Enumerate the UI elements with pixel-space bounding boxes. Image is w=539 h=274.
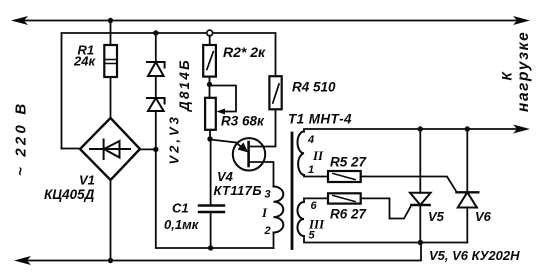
svg-text:3: 3 bbox=[265, 189, 271, 201]
svg-text:V6: V6 bbox=[475, 209, 492, 224]
R3 wiper arrow bbox=[217, 109, 226, 115]
wire zener branch upper bbox=[155, 33, 157, 62]
node V6 top junction bbox=[465, 126, 470, 131]
wire R1 top lead bbox=[110, 21, 112, 46]
wire V4 emitter lead bbox=[210, 140, 243, 149]
svg-text:Д814Б: Д814Б bbox=[177, 58, 192, 112]
svg-text:V2,V3: V2,V3 bbox=[167, 114, 182, 164]
wire R2 bottom lead bbox=[209, 77, 211, 98]
node zener top junction bbox=[153, 30, 158, 35]
node R2 top terminal bbox=[207, 30, 213, 36]
svg-text:КЦ405Д: КЦ405Д bbox=[44, 187, 95, 202]
wire winding II bottom lead bbox=[304, 175, 328, 177]
svg-text:R2* 2к: R2* 2к bbox=[223, 44, 266, 60]
svg-text:R4 510: R4 510 bbox=[292, 80, 336, 95]
zener diode V2 bbox=[147, 62, 165, 76]
wire C1 bottom lead bbox=[210, 212, 212, 248]
svg-text:R5 27: R5 27 bbox=[330, 155, 368, 170]
transformer T1 winding III bbox=[298, 202, 304, 236]
wire bridge bottom lead bbox=[110, 180, 112, 261]
wire top rail bbox=[24, 20, 517, 22]
svg-text:6: 6 bbox=[311, 200, 318, 212]
wire winding III bottom lead bbox=[304, 236, 467, 243]
node E emitter junction bbox=[207, 136, 212, 141]
svg-text:R6 27: R6 27 bbox=[330, 207, 368, 222]
arrow top-left to mains bbox=[11, 16, 28, 25]
svg-text:2: 2 bbox=[264, 225, 271, 237]
resistor R4 bbox=[269, 76, 281, 109]
resistor R2 bbox=[203, 45, 216, 77]
node bridge right / zener line junction bbox=[153, 147, 158, 152]
node bridge bottom rail junction bbox=[108, 258, 113, 263]
svg-text:Т1 МНТ-4: Т1 МНТ-4 bbox=[288, 112, 352, 127]
svg-text:нагрузке: нагрузке bbox=[515, 31, 532, 112]
svg-text:C1: C1 bbox=[172, 201, 189, 216]
arrow bottom-left to mains bbox=[14, 256, 31, 265]
svg-text:1: 1 bbox=[308, 164, 314, 176]
arrow top-right to load bbox=[513, 16, 530, 25]
svg-text:I: I bbox=[261, 205, 268, 220]
svg-text:V4: V4 bbox=[217, 169, 234, 184]
wire zener branch lower bbox=[155, 111, 157, 149]
svg-text:II: II bbox=[312, 148, 324, 163]
svg-text:24к: 24к bbox=[73, 54, 96, 69]
svg-text:V1: V1 bbox=[79, 173, 95, 188]
node C1 common junction bbox=[208, 245, 213, 250]
capacitor C1 top lead bbox=[210, 139, 212, 206]
svg-text:5: 5 bbox=[309, 230, 316, 242]
wire bridge left lead bbox=[62, 148, 81, 150]
svg-text:КТ117Б: КТ117Б bbox=[214, 183, 262, 198]
potentiometer R3 bbox=[205, 98, 216, 130]
wire bottom rail bbox=[27, 243, 421, 261]
wire winding III top lead bbox=[304, 198, 328, 202]
wire R3 bottom lead bbox=[209, 130, 211, 139]
resistor R6 bbox=[328, 193, 361, 203]
wire R5 to V6 gate bbox=[361, 177, 457, 193]
wire bridge right lead bbox=[140, 148, 156, 150]
wire V5 cathode line bbox=[419, 205, 421, 243]
wire winding I bottom lead bbox=[273, 233, 275, 249]
resistor R1 bbox=[104, 45, 117, 77]
wire winding II top lead / mid rail start bbox=[304, 129, 517, 132]
thyristor V6 bbox=[457, 192, 479, 207]
arrow mid-right to load bbox=[513, 125, 530, 134]
transistor V4 base bar bbox=[247, 142, 250, 166]
wire R2 top lead bbox=[209, 36, 211, 46]
wire R6 to V5 gate bbox=[361, 198, 412, 218]
transistor V4 bbox=[233, 138, 265, 170]
thyristor V5 bbox=[410, 193, 431, 205]
capacitor C1 bbox=[199, 206, 224, 213]
node V5 top junction bbox=[418, 126, 423, 131]
thyristor V5 anode line bbox=[419, 129, 421, 193]
resistor R5 bbox=[328, 171, 361, 182]
svg-text:V5, V6 КУ202Н: V5, V6 КУ202Н bbox=[429, 248, 520, 263]
wire R4 bottom lead to base2 bbox=[249, 109, 276, 146]
wire V6 anode line bbox=[466, 208, 468, 243]
V4 emitter arrow bbox=[238, 142, 249, 152]
svg-text:4: 4 bbox=[307, 134, 314, 146]
wire between zeners bbox=[155, 76, 157, 98]
node V5 cathode junction bbox=[418, 240, 423, 245]
wire R1 bottom lead bbox=[110, 77, 112, 118]
wire bus2 horizontal bbox=[62, 33, 276, 149]
svg-text:0,1мк: 0,1мк bbox=[164, 217, 200, 232]
wire R3 wiper loop bbox=[210, 86, 237, 112]
svg-text:R3 68к: R3 68к bbox=[221, 114, 265, 129]
transformer T1 core bbox=[291, 133, 294, 249]
transformer T1 winding I bbox=[274, 187, 284, 233]
wire V4 base1 lead to winding I bbox=[249, 162, 274, 187]
diode inside bridge V1 bbox=[90, 140, 130, 160]
svg-text:V5: V5 bbox=[428, 209, 445, 224]
zener diode V3 bbox=[147, 98, 165, 111]
node top rail / R1 junction bbox=[108, 18, 113, 23]
thyristor V6 cathode line bbox=[466, 129, 468, 192]
rectifier bridge V1 bbox=[80, 118, 140, 180]
node R2/R3 junction bbox=[207, 82, 212, 87]
svg-text:~ 220 В: ~ 220 В bbox=[13, 101, 30, 176]
wire zener line to common bbox=[156, 149, 274, 248]
transformer T1 winding II bbox=[298, 132, 305, 176]
